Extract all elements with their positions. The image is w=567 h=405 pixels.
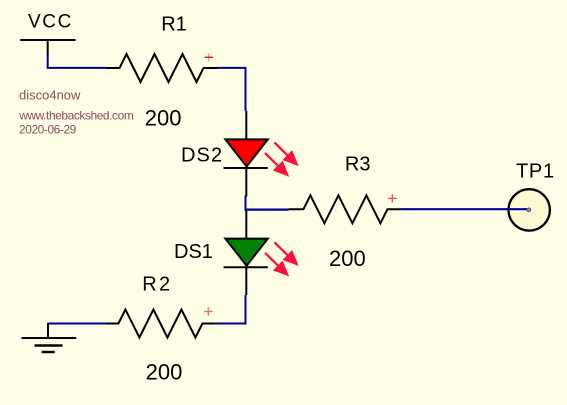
svg-text:DS2: DS2 — [181, 145, 223, 167]
svg-text:200: 200 — [329, 246, 366, 271]
svg-text:R1: R1 — [161, 14, 187, 36]
svg-text:200: 200 — [145, 106, 182, 131]
svg-text:R2: R2 — [142, 273, 172, 295]
svg-text:VCC: VCC — [28, 11, 73, 32]
svg-text:TP1: TP1 — [516, 161, 555, 183]
svg-text:2020-06-29: 2020-06-29 — [19, 123, 77, 137]
svg-text:www.thebackshed.com: www.thebackshed.com — [18, 109, 134, 123]
svg-text:R3: R3 — [345, 154, 371, 176]
svg-text:200: 200 — [146, 360, 183, 385]
svg-text:DS1: DS1 — [174, 241, 213, 263]
svg-text:disco4now: disco4now — [19, 87, 81, 102]
